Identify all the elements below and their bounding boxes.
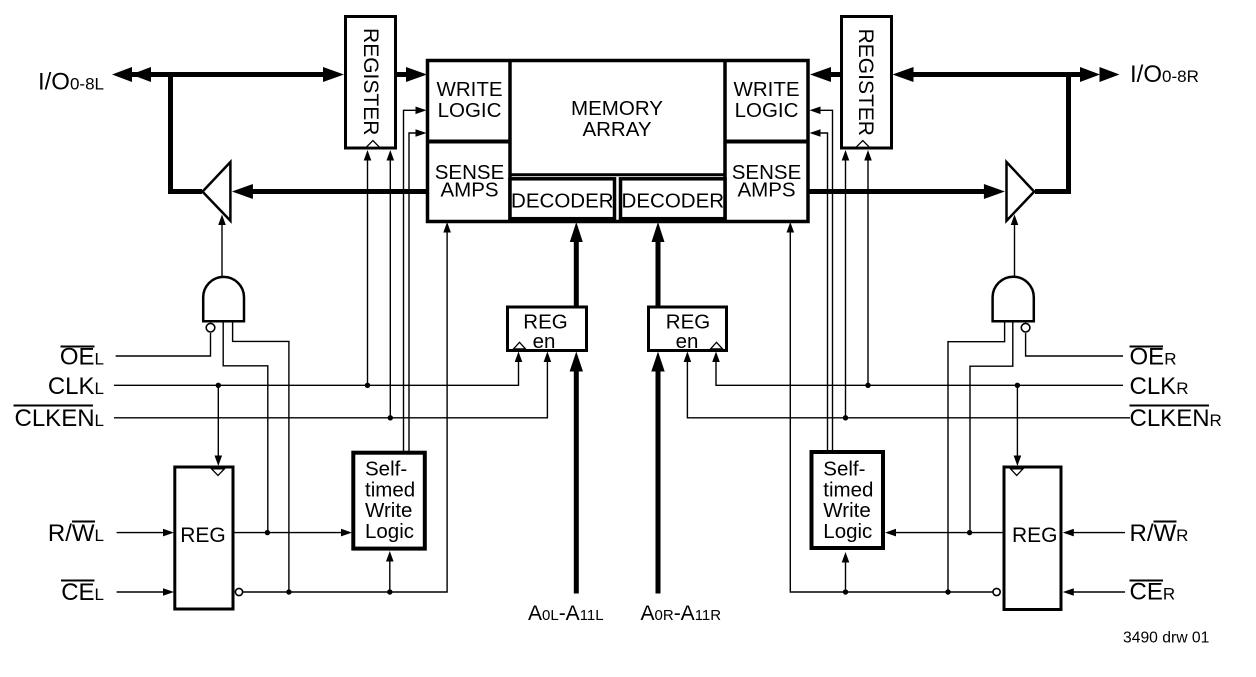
- wire left address upper to decoder: [570, 222, 583, 307]
- central outer box: [428, 61, 809, 222]
- svg-text:REG: REG: [180, 524, 226, 547]
- junction CLKL to REG clock: [216, 383, 221, 388]
- right REGISTER box: [842, 17, 892, 149]
- wire CLKENL up to REGISTER: [387, 150, 395, 418]
- wire right REG RW output to self-timed: [885, 529, 1002, 537]
- svg-text:Self-: Self-: [365, 458, 407, 481]
- wire REG RW output to self-timed: [234, 529, 352, 537]
- wire right bus from sense amps: [808, 184, 1005, 199]
- divider write/sense right: [725, 140, 808, 144]
- junction CE to AND: [286, 589, 291, 594]
- decoder box right: [621, 179, 726, 219]
- right AND gate bubble: [1021, 323, 1030, 332]
- wire left I/O branch to buffer: [171, 72, 203, 192]
- label OEL: [60, 344, 104, 371]
- wire CLKENR: [684, 352, 1130, 418]
- svg-text:AMPS: AMPS: [737, 178, 795, 201]
- right REG wedge: [1011, 469, 1024, 476]
- divider left column: [508, 61, 512, 222]
- wire left AND input from RW line: [223, 321, 268, 532]
- svg-text:CLKENR: CLKENR: [1130, 405, 1222, 432]
- left AND gate bubble: [206, 323, 215, 332]
- right REG en box: [649, 307, 727, 351]
- left REGISTER box: [346, 17, 396, 149]
- left REG CE bubble: [235, 588, 242, 595]
- divider write/sense left: [428, 140, 511, 144]
- label R/WL: [48, 520, 104, 547]
- wire R/WR into REG: [1063, 529, 1125, 537]
- wire CLKENL: [114, 352, 551, 418]
- svg-text:Write: Write: [823, 499, 870, 522]
- junction CLKR to REGISTER: [865, 383, 870, 388]
- svg-text:timed: timed: [365, 478, 415, 501]
- left self-timed box: [353, 453, 425, 549]
- label CER: [1130, 579, 1176, 606]
- left REG en wedge: [514, 342, 526, 349]
- wire left AND output to buffer: [218, 215, 226, 277]
- wire left I/O bus: [112, 67, 344, 82]
- junction RW to AND: [265, 530, 270, 535]
- svg-text:WRITE: WRITE: [733, 78, 799, 101]
- wire right address upper to decoder: [652, 222, 665, 307]
- divider right column: [723, 61, 727, 222]
- wire right self-timed to write logic inner: [810, 129, 828, 452]
- wire self-timed to write logic outer: [404, 107, 427, 453]
- right REG box: [1004, 467, 1061, 610]
- wire right CE up to self-timed: [842, 552, 850, 592]
- left REG en box: [508, 307, 587, 351]
- wire left address lower: [570, 352, 583, 594]
- memory array bottom edge: [510, 173, 725, 176]
- junction CE to self-timed: [387, 589, 392, 594]
- svg-text:Logic: Logic: [365, 520, 414, 543]
- svg-text:en: en: [676, 330, 699, 353]
- left REG wedge: [212, 469, 225, 476]
- svg-text:WRITE: WRITE: [436, 78, 502, 101]
- svg-text:3490 drw 01: 3490 drw 01: [1123, 630, 1209, 647]
- right self-timed box: [812, 452, 884, 548]
- label CLKENL: [14, 405, 105, 432]
- svg-text:DECODER: DECODER: [622, 190, 725, 213]
- wire CLKENR up to REGISTER: [842, 150, 850, 418]
- label CLKENR: [1130, 405, 1222, 432]
- svg-text:CLKENL: CLKENL: [15, 405, 105, 432]
- right REGISTER clock wedge: [856, 141, 870, 148]
- wire right address lower: [651, 352, 664, 594]
- wire CE line to sense amps: [243, 222, 451, 592]
- wire CLKR down to REG clock: [1014, 385, 1022, 466]
- wire left bus from sense amps: [232, 184, 428, 199]
- svg-text:REGISTER: REGISTER: [359, 28, 382, 135]
- wire CLKR: [712, 352, 1123, 386]
- wire right self-timed to write logic outer: [810, 107, 833, 453]
- left AND gate: [203, 277, 244, 321]
- svg-text:timed: timed: [823, 478, 873, 501]
- right AND gate: [993, 277, 1034, 322]
- svg-text:REG: REG: [1012, 524, 1058, 547]
- wire CER into REG: [1063, 588, 1125, 596]
- junction right RW to AND: [967, 530, 972, 535]
- svg-text:MEMORY: MEMORY: [571, 97, 663, 120]
- label CEL: [61, 579, 104, 606]
- left output buffer: [203, 162, 231, 221]
- label R/WR: [1130, 520, 1189, 547]
- right REG en wedge: [711, 342, 723, 349]
- right REG CE bubble: [993, 588, 1000, 595]
- wire right CE line to sense amps: [787, 222, 993, 592]
- wire right AND output to buffer: [1011, 215, 1019, 277]
- svg-text:Self-: Self-: [823, 458, 865, 481]
- wire CLKL up to REGISTER: [364, 150, 372, 385]
- junction CLKL to REGISTER: [365, 383, 370, 388]
- wire right I/O branch to buffer: [1035, 72, 1069, 192]
- svg-text:LOGIC: LOGIC: [735, 99, 799, 122]
- svg-text:REGISTER: REGISTER: [854, 29, 877, 136]
- right output buffer: [1007, 162, 1035, 221]
- wire left AND input from CE line: [233, 321, 289, 592]
- wire CLKL down to REG clock: [215, 385, 223, 466]
- svg-text:DECODER: DECODER: [511, 190, 614, 213]
- svg-text:LOGIC: LOGIC: [438, 99, 502, 122]
- decoder box left: [510, 179, 615, 219]
- wire CLKL: [114, 352, 522, 386]
- junction CLKENL to REGISTER: [388, 415, 393, 420]
- junction right CE to AND: [945, 589, 950, 594]
- wire CE up to self-timed: [386, 551, 394, 592]
- svg-text:ARRAY: ARRAY: [582, 118, 651, 141]
- wire R/WL into REG: [117, 529, 174, 537]
- wire right AND input from RW line: [970, 321, 1013, 532]
- svg-text:Write: Write: [365, 499, 412, 522]
- wire OEL: [116, 333, 211, 356]
- wire register to write logic right: [810, 67, 841, 82]
- label OER: [1130, 344, 1177, 371]
- left REGISTER clock wedge: [366, 141, 379, 148]
- junction CLKENR to REGISTER: [843, 415, 848, 420]
- svg-text:en: en: [533, 330, 556, 353]
- junction CLKR to REG clock: [1015, 383, 1020, 388]
- wire CLKR up to REGISTER: [864, 150, 872, 385]
- svg-text:AMPS: AMPS: [440, 178, 498, 201]
- wire right AND input from CE line: [948, 321, 1005, 592]
- wire right I/O bus: [893, 67, 1120, 82]
- junction right CE to self-timed: [843, 589, 848, 594]
- wire OER: [1026, 333, 1123, 356]
- svg-text:Logic: Logic: [823, 520, 872, 543]
- wire CEL into REG: [117, 588, 174, 596]
- wire self-timed to write logic inner: [409, 129, 427, 453]
- left REG box: [175, 467, 233, 609]
- wire register to write logic left: [397, 67, 427, 82]
